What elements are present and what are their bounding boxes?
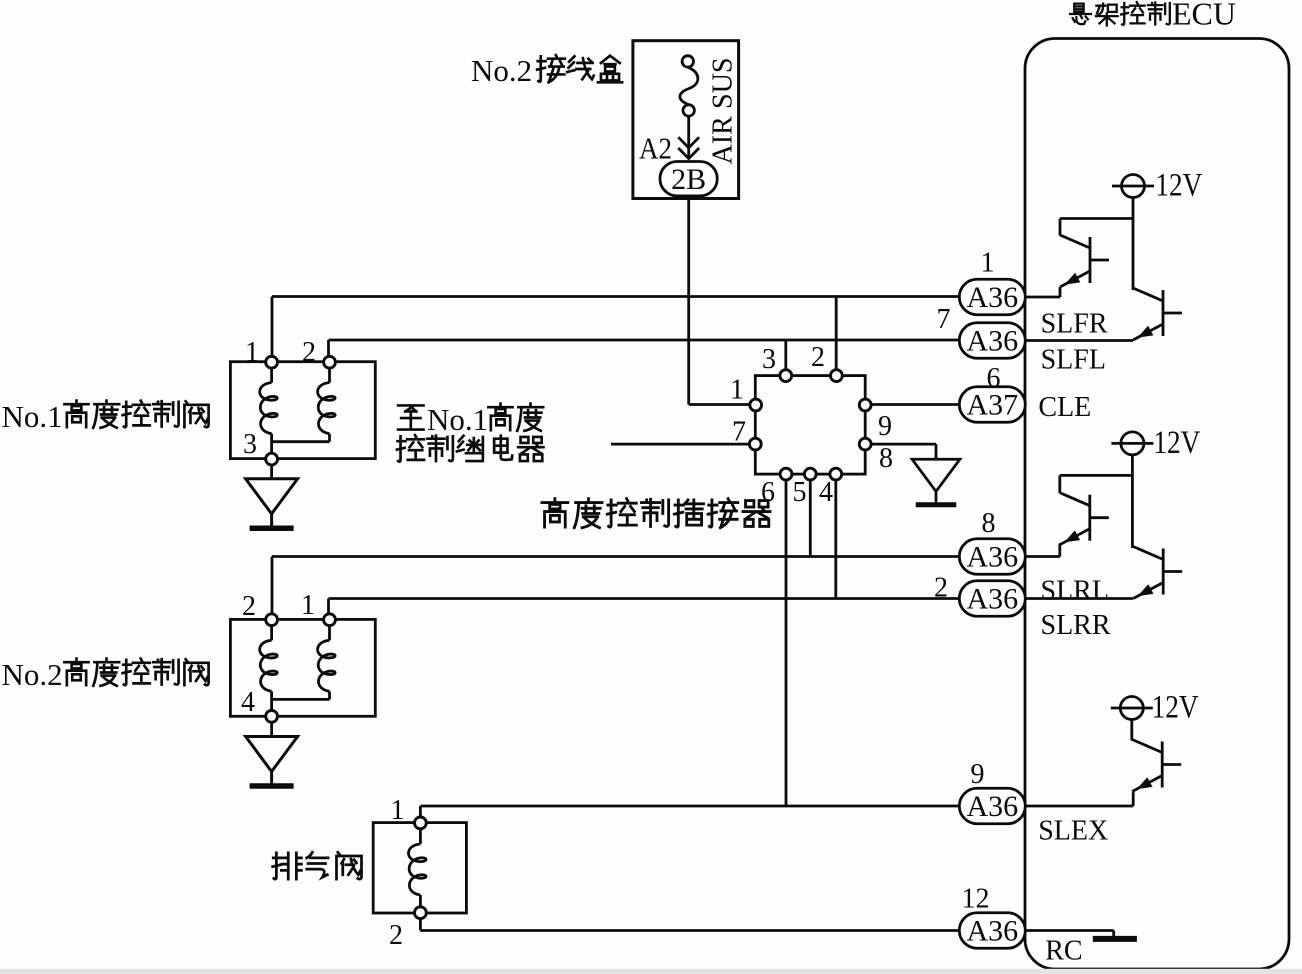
svg-text:3: 3 bbox=[762, 344, 776, 375]
svg-text:CLE: CLE bbox=[1038, 392, 1091, 423]
svg-text:A36: A36 bbox=[966, 325, 1018, 358]
label 控制继电器 bbox=[397, 435, 544, 462]
svg-text:SLFL: SLFL bbox=[1041, 345, 1106, 376]
svg-text:2: 2 bbox=[242, 591, 256, 622]
connector A36 pin 7 (SLFL) bbox=[959, 323, 1025, 359]
wire coil interconnect valve2 bbox=[272, 698, 330, 701]
pin 3 of valve1 bbox=[266, 453, 278, 465]
svg-text:2: 2 bbox=[389, 920, 403, 951]
pin 4 of valve2 bbox=[266, 710, 278, 722]
junction box No.2 (No.2接线盒) bbox=[633, 41, 739, 199]
wire branch connector pin 4 to SLRR net bbox=[834, 474, 837, 598]
fuse AIR SUS bbox=[678, 56, 699, 159]
svg-text:1: 1 bbox=[245, 337, 259, 368]
svg-text:1: 1 bbox=[391, 795, 405, 826]
svg-text:A36: A36 bbox=[966, 541, 1018, 574]
svg-text:A2: A2 bbox=[639, 131, 672, 166]
svg-text:1: 1 bbox=[981, 248, 995, 279]
suspension control ECU box bbox=[1025, 39, 1289, 970]
wire connector pin8 to ground bbox=[865, 443, 936, 446]
connector pin 9 bbox=[859, 399, 871, 411]
wire valve1 pin3 to ground bbox=[270, 465, 273, 479]
svg-text:A36: A36 bbox=[966, 583, 1018, 616]
wire SLRL inside ECU bbox=[1025, 555, 1060, 558]
svg-text:6: 6 bbox=[761, 477, 775, 508]
svg-text:SLFR: SLFR bbox=[1041, 309, 1108, 340]
svg-text:1: 1 bbox=[730, 375, 744, 406]
svg-text:2: 2 bbox=[811, 342, 825, 373]
wire branch to transistor Q3 collector bbox=[1060, 474, 1133, 477]
connector pin 5 bbox=[804, 468, 816, 480]
connector pin 4 bbox=[830, 468, 842, 480]
12V supply symbol (group 1) bbox=[1112, 175, 1154, 198]
wire branch connector pin 6 to SLEX net bbox=[785, 474, 788, 806]
svg-text:7: 7 bbox=[937, 304, 951, 335]
wire branch to height connector pin 3 bbox=[784, 340, 787, 376]
wire SLEX inside ECU bbox=[1025, 805, 1133, 808]
svg-text:2: 2 bbox=[934, 573, 948, 604]
wire valve1 pin2 up to SLFL net bbox=[327, 340, 330, 362]
wire coil interconnect valve1 bbox=[272, 440, 330, 443]
wire valve2 pin2 up to SLRL net bbox=[271, 557, 274, 620]
svg-text:12V: 12V bbox=[1152, 690, 1199, 726]
connector pin 3 bbox=[780, 370, 792, 382]
wire stub to No.1 height control relay (connector pin 7) bbox=[611, 443, 755, 446]
exhaust valve (排气阀) bbox=[373, 823, 466, 913]
wire 2B to connector pin 1 bbox=[687, 196, 690, 405]
connector A37 pin 6 (CLE) bbox=[959, 387, 1025, 423]
No.1 height control valve (No.1高度控制阀) bbox=[230, 362, 375, 459]
svg-text:4: 4 bbox=[819, 477, 833, 508]
solenoid coil L2a bbox=[270, 620, 273, 641]
transistor Q3 (SLRL driver) bbox=[1060, 493, 1109, 545]
ground (valve1) bbox=[246, 479, 298, 529]
solenoid coil L2b bbox=[328, 620, 331, 641]
connector 2B bbox=[660, 162, 717, 196]
connector A36 pin 2 (SLRR) bbox=[959, 581, 1025, 617]
pin 1 of exhaust valve bbox=[415, 817, 427, 829]
wire branch to transistor Q1 collector bbox=[1060, 217, 1133, 220]
wire Q5 emitter to SLEX pin bbox=[1132, 792, 1135, 806]
wire SLFR net (valve1 pin1 to ECU A36 pin1) bbox=[272, 295, 961, 298]
svg-text:No.2: No.2 bbox=[471, 53, 532, 88]
No.2 height control valve (No.2高度控制阀) bbox=[230, 619, 375, 716]
svg-text:AIR SUS: AIR SUS bbox=[707, 57, 738, 164]
svg-text:A36: A36 bbox=[966, 790, 1018, 823]
svg-text:4: 4 bbox=[241, 687, 255, 718]
wire SLFL inside ECU bbox=[1025, 339, 1133, 342]
label 悬架控制ECU bbox=[1070, 2, 1170, 25]
connector pin 1 bbox=[750, 399, 762, 411]
pin 2 of valve1 bbox=[324, 356, 336, 368]
height control connector (高度控制插接器) bbox=[755, 376, 865, 475]
label 高度控制插接器 bbox=[542, 499, 770, 528]
solenoid coil L1a bbox=[270, 362, 273, 383]
wire valve2 pin1 up to SLRR net bbox=[327, 599, 330, 620]
transistor Q1 (SLFR driver) bbox=[1060, 235, 1109, 287]
wire valve2 pin4 to ground bbox=[270, 722, 273, 737]
svg-text:A36: A36 bbox=[966, 915, 1018, 948]
svg-text:RC: RC bbox=[1045, 936, 1082, 967]
connector A36 pin 12 (RC) bbox=[959, 913, 1025, 949]
svg-text:9: 9 bbox=[878, 411, 892, 442]
solenoid coil L1b bbox=[328, 362, 331, 383]
connector pin 7 bbox=[749, 438, 761, 450]
wire 12V down (group2) bbox=[1131, 455, 1134, 548]
svg-text:12V: 12V bbox=[1155, 168, 1202, 204]
chassis ground (RC) bbox=[1093, 936, 1137, 942]
wire SLEX net (exhaust valve pin1 to ECU A36 pin9) bbox=[420, 805, 961, 808]
svg-text:SLRR: SLRR bbox=[1041, 610, 1111, 641]
transistor Q5 (SLEX driver) bbox=[1132, 740, 1181, 792]
wire Q3 emitter to SLRL pin bbox=[1058, 543, 1061, 556]
svg-text:No.2: No.2 bbox=[2, 657, 63, 692]
wire RC net (exhaust valve pin2 to ECU A36 pin12) bbox=[420, 929, 961, 932]
solenoid coil L3 bbox=[419, 823, 422, 844]
svg-text:2: 2 bbox=[302, 337, 316, 368]
wire SLRR net (valve2 pin1 to ECU A36 pin2) bbox=[329, 597, 962, 600]
pin 1 of valve2 bbox=[324, 614, 336, 626]
wire RC inside ECU bbox=[1025, 929, 1114, 932]
wire Q1 emitter to SLFR pin bbox=[1059, 287, 1062, 297]
wire exhaust pin1 up to SLEX net bbox=[419, 806, 422, 823]
wire SLFL net (valve1 pin2 to ECU A36 pin7) bbox=[329, 339, 962, 342]
svg-text:8: 8 bbox=[982, 508, 996, 539]
svg-text:SLRL: SLRL bbox=[1041, 576, 1109, 607]
svg-text:9: 9 bbox=[971, 759, 985, 790]
pin 2 of valve2 bbox=[266, 614, 278, 626]
svg-text:2B: 2B bbox=[671, 163, 706, 196]
svg-text:12: 12 bbox=[962, 884, 990, 915]
ground (valve2) bbox=[246, 737, 298, 787]
svg-text:SLEX: SLEX bbox=[1038, 816, 1108, 847]
connector pin 2 bbox=[831, 370, 843, 382]
ground (connector pin 8) bbox=[912, 459, 960, 505]
pin 1 of valve1 bbox=[266, 356, 278, 368]
connector A36 pin 8 (SLRL) bbox=[959, 539, 1025, 575]
svg-text:1: 1 bbox=[301, 590, 315, 621]
svg-text:8: 8 bbox=[879, 443, 893, 474]
wire 12V down (group1) bbox=[1132, 198, 1135, 291]
wire CLE net (connector pin9 to ECU A37 pin6) bbox=[865, 403, 961, 406]
svg-text:12V: 12V bbox=[1153, 425, 1200, 461]
wire valve1 pin1 up to SLFR net bbox=[271, 297, 274, 363]
svg-text:A36: A36 bbox=[966, 281, 1018, 314]
connector A36 pin 1 (SLFR) bbox=[959, 279, 1025, 315]
svg-text:6: 6 bbox=[987, 363, 1001, 394]
svg-text:3: 3 bbox=[243, 429, 257, 460]
12V supply symbol (group 3) bbox=[1111, 697, 1153, 720]
(scan artifact band) bbox=[0, 969, 1302, 974]
wire 12V down (group3) bbox=[1130, 720, 1133, 741]
wire SLRR inside ECU bbox=[1025, 597, 1133, 600]
wire SLFR inside ECU bbox=[1025, 296, 1060, 299]
label 排气阀 bbox=[273, 852, 362, 879]
wire SLRL net (valve2 pin2 to ECU A36 pin8) bbox=[272, 555, 961, 558]
label 至No.1高度 (to No.1 height control relay) bbox=[398, 405, 423, 429]
svg-text:No.1: No.1 bbox=[2, 399, 63, 434]
connector pin 8 bbox=[859, 438, 871, 450]
transistor Q4 (SLRR driver) bbox=[1133, 547, 1182, 599]
svg-text:No.1: No.1 bbox=[427, 402, 488, 437]
transistor Q2 (SLFL driver) bbox=[1133, 288, 1182, 340]
wire exhaust pin2 down to RC net bbox=[419, 913, 422, 931]
connector A36 pin 9 (SLEX) bbox=[959, 788, 1025, 824]
wire branch to height connector pin 2 bbox=[835, 297, 838, 376]
svg-text:7: 7 bbox=[732, 417, 746, 448]
pin 2 of exhaust valve bbox=[415, 907, 427, 919]
wire branch connector pin 5 to SLRL net bbox=[809, 474, 812, 556]
svg-text:ECU: ECU bbox=[1172, 0, 1236, 32]
12V supply symbol (group 2) bbox=[1111, 432, 1153, 455]
svg-text:5: 5 bbox=[793, 477, 807, 508]
connector pin 6 bbox=[780, 468, 792, 480]
